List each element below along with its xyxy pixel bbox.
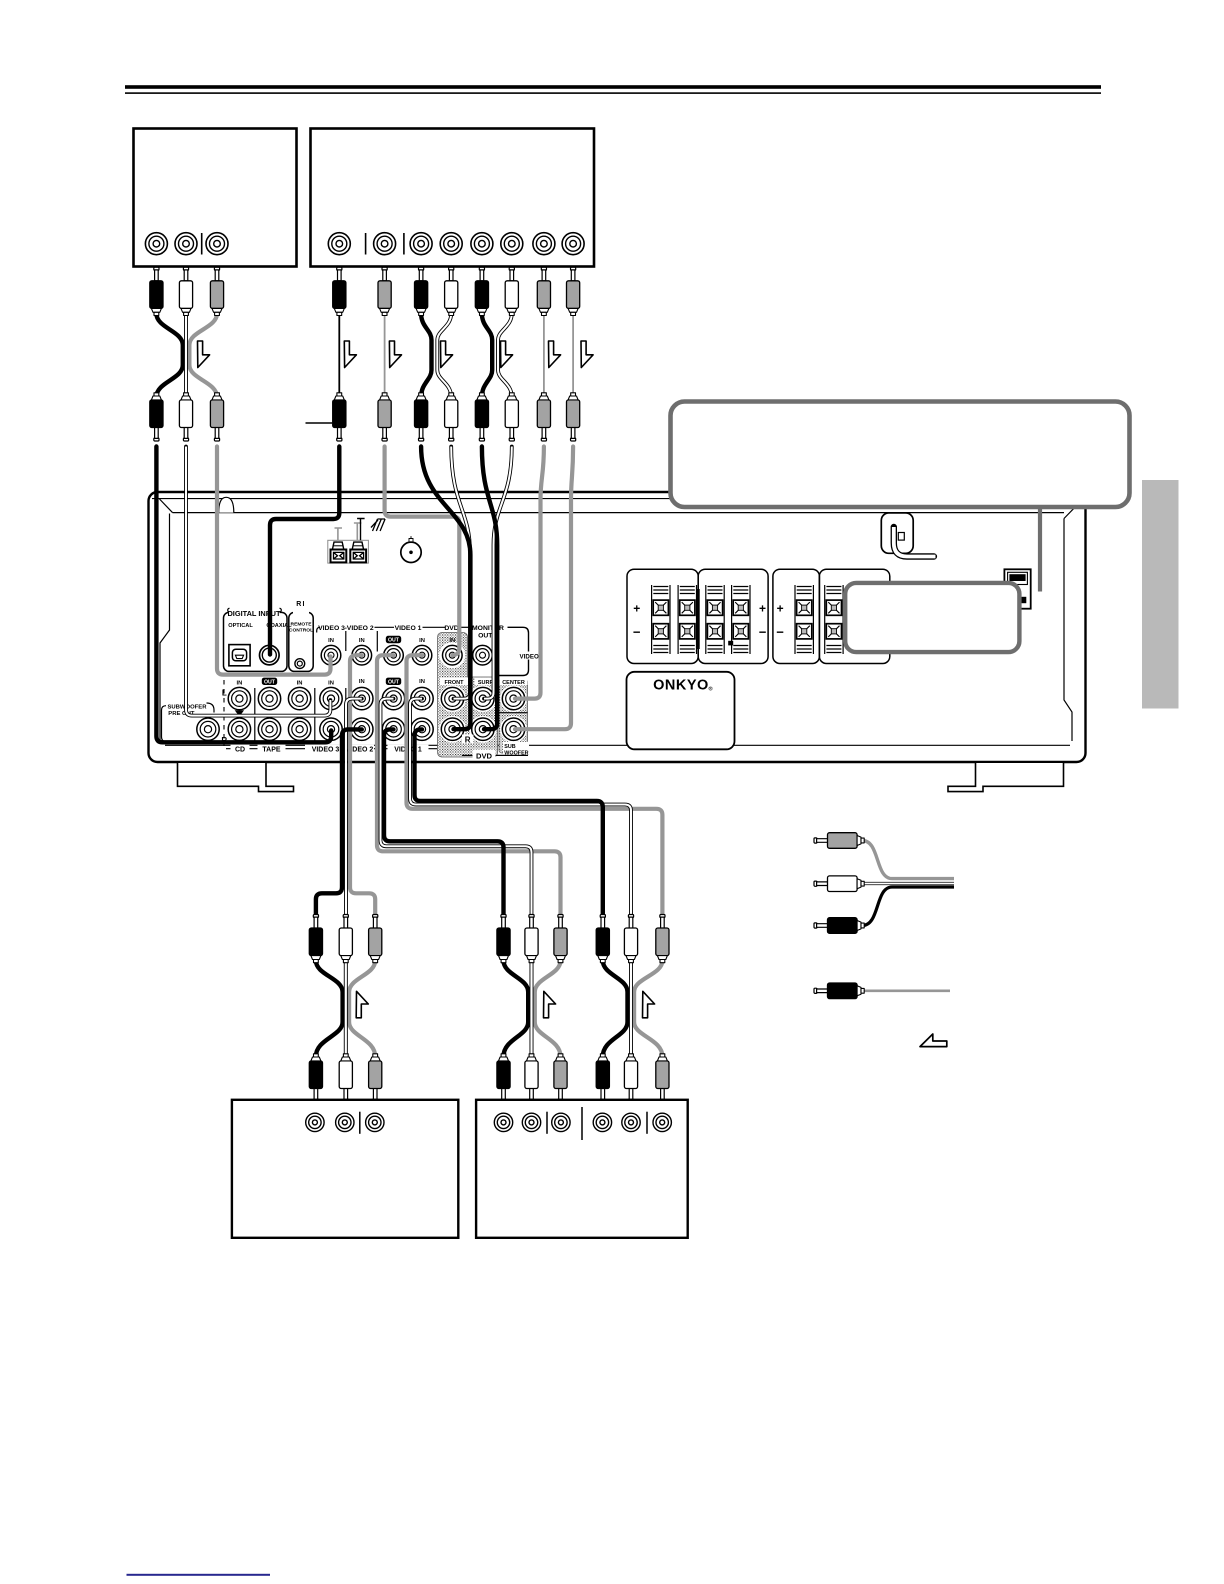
left foot	[178, 763, 294, 792]
DVD hatch zone	[438, 633, 498, 758]
svg-text:IN: IN	[328, 638, 334, 644]
legend plug grey	[814, 833, 864, 849]
group2 white straight	[530, 961, 534, 1057]
speaker bracket 3	[773, 569, 820, 663]
TAPE label	[258, 745, 286, 753]
svg-text:−: −	[776, 624, 784, 639]
big callout box	[671, 402, 1130, 508]
plugs box2 lower	[333, 393, 346, 441]
VIDEO zone label	[518, 652, 541, 660]
inner panel bottom edge	[165, 744, 1070, 746]
cable VIDEO2 grey down to group1	[350, 655, 375, 914]
right bevel edge	[1064, 519, 1072, 742]
cable box2-6 white to SURR L	[484, 447, 512, 699]
svg-text:IN: IN	[359, 679, 365, 685]
OUT badge video row	[386, 636, 401, 643]
svg-text:SURR: SURR	[478, 680, 494, 686]
component box top-left	[134, 129, 297, 267]
DVD bottom label	[462, 754, 528, 756]
cable box1-grey to VIDEO3 video IN	[217, 447, 331, 675]
L row jacks	[228, 687, 250, 709]
cable box1-black to VIDEO3 R	[156, 447, 331, 743]
R row jacks	[197, 718, 219, 740]
legend single plug black	[814, 983, 864, 999]
VIDEO 3 bottom label	[305, 745, 346, 753]
box1 jack divider	[201, 233, 203, 255]
cable VIDEO1OUT white down to group2	[381, 699, 532, 914]
right bevel diagonal	[1064, 500, 1082, 519]
ONKYO logo box	[627, 672, 735, 750]
svg-text:IN: IN	[419, 679, 425, 685]
AC cord nub	[898, 533, 904, 541]
svg-text:IN: IN	[328, 681, 334, 687]
box2 jacks	[328, 233, 350, 255]
svg-text:VIDEO 3: VIDEO 3	[318, 625, 345, 632]
svg-text:REMOTE: REMOTE	[291, 622, 313, 628]
cable box2-5 black to SURR R	[482, 447, 497, 730]
wire box1 black braid	[156, 314, 182, 398]
ground symbol glyph	[371, 519, 385, 531]
svg-text:VIDEO: VIDEO	[520, 653, 539, 660]
impedance mark	[728, 641, 733, 646]
cable VIDEO1IN black down to group3	[415, 729, 603, 914]
speaker strip FR2	[732, 585, 750, 654]
receiver outer shell	[149, 492, 1086, 762]
svg-text:VIDEO 1: VIDEO 1	[395, 625, 422, 632]
box1 jack white	[175, 233, 197, 255]
wire braid box2-5 black	[482, 314, 492, 398]
box2 divider 1	[365, 233, 367, 255]
video row label rail	[317, 627, 320, 632]
legend cable black branch	[862, 887, 954, 926]
cable VIDEO2 black down to group1	[316, 729, 362, 914]
wire box2-2	[384, 314, 386, 398]
CENTER/SUB hatch zone	[499, 679, 528, 754]
svg-text:FRONT: FRONT	[445, 680, 465, 686]
legend single cable	[864, 989, 951, 992]
power switch	[1004, 569, 1030, 608]
legend cable grey branch	[862, 841, 954, 879]
cable VIDEO1IN grey down to group3	[407, 655, 663, 914]
cable box1-white to VIDEO3 L	[186, 447, 330, 716]
strip divider thick	[697, 589, 700, 649]
svg-text:VIDEO 3: VIDEO 3	[312, 746, 340, 753]
cable VIDEO1IN white down to group3	[410, 699, 631, 914]
svg-text:IN: IN	[236, 681, 242, 687]
VIDEO 2 bottom label	[346, 745, 374, 753]
wire braid box2-6 white	[498, 314, 512, 398]
pointer line to plug	[306, 422, 333, 424]
left bevel edge	[160, 514, 170, 742]
speaker strip S2	[825, 585, 843, 654]
component box bottom-left	[232, 1100, 458, 1238]
AC cord	[894, 527, 934, 557]
center/sub divider	[499, 712, 528, 714]
svg-text:CENTER: CENTER	[502, 680, 525, 686]
svg-text:DVD: DVD	[476, 751, 493, 760]
svg-text:TAPE: TAPE	[262, 746, 280, 753]
plugs box1	[150, 267, 163, 315]
cable box2-8 grey to SUBWOOFER	[515, 447, 573, 730]
speaker bracket 4	[819, 569, 889, 663]
legend plug black	[814, 918, 864, 934]
cable box2-7 grey to CENTER	[515, 447, 544, 699]
right foot	[948, 763, 1064, 792]
speaker bracket 2	[698, 569, 768, 663]
antenna terminal 2	[350, 542, 366, 562]
wire box2-1	[338, 314, 340, 398]
inner panel top edge	[173, 512, 1065, 514]
column separators	[223, 680, 225, 746]
svg-text:SUB: SUB	[504, 744, 515, 750]
speaker strip FL2	[678, 585, 696, 654]
top arrows	[198, 341, 210, 368]
box1 jack video	[206, 233, 228, 255]
grey sidebar tab	[1142, 480, 1179, 709]
box2 divider 2	[403, 233, 405, 255]
FM antenna jack	[401, 542, 421, 562]
legend arrow	[920, 1034, 947, 1047]
RI jack	[295, 659, 305, 669]
svg-text:IN: IN	[419, 638, 425, 644]
svg-text:IN: IN	[359, 638, 365, 644]
svg-text:+: +	[759, 602, 766, 616]
DIGITAL INPUT frame	[224, 612, 288, 671]
component box bottom-right	[476, 1100, 688, 1238]
speaker strip FR	[706, 585, 724, 654]
bottom arrows	[356, 991, 368, 1018]
component box top-middle	[311, 129, 595, 267]
svg-text:OUT: OUT	[388, 638, 400, 644]
cable VIDEO1OUT grey down to group2	[377, 655, 561, 914]
marker under CD L jack	[235, 710, 244, 716]
speaker strip S1	[795, 585, 813, 654]
svg-text:CD: CD	[235, 746, 245, 753]
legend cable white straight	[858, 882, 954, 885]
svg-text:®: ®	[709, 686, 713, 693]
callout connector line	[1038, 507, 1042, 592]
svg-text:CONTROL: CONTROL	[289, 627, 313, 633]
bottom label rail	[226, 748, 437, 750]
group1 black braid	[316, 961, 343, 1057]
wire braid box2-3 black	[421, 314, 431, 398]
svg-text:VIDEO 2: VIDEO 2	[347, 625, 374, 632]
optical jack	[229, 645, 250, 666]
svg-text:+: +	[633, 602, 640, 616]
svg-text:DVD: DVD	[444, 625, 458, 632]
group1 white straight	[344, 961, 348, 1057]
cable box2-3 black to FRONT R	[421, 447, 470, 730]
RECEIVER BODY	[149, 492, 1086, 792]
cable VIDEO1OUT black down to group2	[384, 729, 504, 914]
legend plug white	[814, 876, 864, 892]
cable box2-4 white to FRONT L	[451, 447, 470, 699]
svg-text:OPTICAL: OPTICAL	[228, 623, 253, 629]
cable box2-1 black to COAXIAL	[270, 447, 339, 655]
antenna terminal 1	[331, 542, 347, 562]
antenna lead wires	[335, 528, 343, 540]
group2 black braid	[504, 961, 529, 1057]
group1 grey braid	[349, 961, 375, 1057]
box1 jack L	[145, 233, 167, 255]
hanger bump on inner edge	[219, 497, 234, 512]
receiver inner top line	[152, 498, 1083, 500]
group3 white straight	[629, 961, 633, 1057]
wire box1 grey braid	[189, 314, 217, 398]
svg-text:−: −	[633, 624, 641, 639]
wire box2-7	[543, 314, 545, 398]
small callout box	[845, 583, 1019, 652]
FRONT SURR CENTER labels	[440, 678, 468, 686]
svg-text:R: R	[465, 736, 471, 745]
VIDEO 1 bottom label	[388, 745, 429, 753]
plugs box2 upper	[333, 267, 346, 315]
RI frame	[289, 612, 313, 671]
group3 grey braid	[634, 961, 662, 1057]
svg-text:DIGITAL INPUT: DIGITAL INPUT	[227, 609, 281, 618]
antenna push-terminal base	[328, 540, 369, 563]
svg-text:L: L	[222, 689, 227, 698]
svg-text:RI: RI	[296, 601, 305, 608]
svg-text:OUT: OUT	[264, 679, 276, 685]
SUB WOOFER label	[503, 742, 529, 754]
top rule thick	[125, 85, 1101, 89]
svg-text:OUT: OUT	[388, 679, 400, 685]
svg-text:IN: IN	[297, 681, 303, 687]
coaxial jack	[260, 645, 280, 665]
top rule thin	[125, 92, 1101, 94]
svg-text:+: +	[777, 602, 784, 616]
svg-text:OUT: OUT	[478, 633, 493, 640]
speaker strip FL	[652, 585, 670, 654]
wire braid box2-4 white	[437, 314, 451, 398]
monitor video zone box	[498, 627, 529, 675]
svg-text:−: −	[759, 624, 767, 639]
cable box2-2 grey to DVD video IN	[385, 447, 460, 656]
group2 grey braid	[535, 961, 561, 1057]
group3 black braid	[603, 961, 628, 1057]
left bevel diagonal	[160, 499, 173, 513]
video row jacks	[321, 645, 341, 665]
cable VIDEO2 white down to group1	[346, 699, 362, 914]
svg-text:ONKYO: ONKYO	[653, 678, 709, 694]
speaker bracket 1	[627, 569, 698, 663]
AC cord bracket	[881, 513, 913, 553]
wire box1 white straight	[184, 314, 188, 398]
CD label	[231, 745, 250, 753]
wire box2-8	[572, 314, 574, 398]
footer rule (blue)	[127, 1574, 271, 1576]
